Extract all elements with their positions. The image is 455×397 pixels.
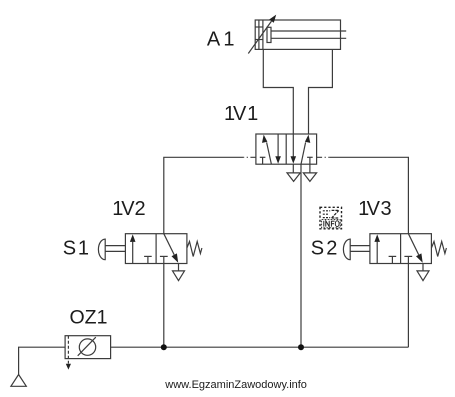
svg-text:A1: A1 [207,28,235,50]
svg-text:OZ1: OZ1 [70,306,108,328]
svg-text:S2: S2 [311,238,338,260]
svg-text:S1: S1 [63,238,89,260]
svg-text:1V3: 1V3 [358,198,392,220]
svg-text:1V2: 1V2 [112,198,145,220]
svg-text:www.EgzaminZawodowy.info: www.EgzaminZawodowy.info [164,379,307,391]
svg-text:1V1: 1V1 [224,103,258,125]
